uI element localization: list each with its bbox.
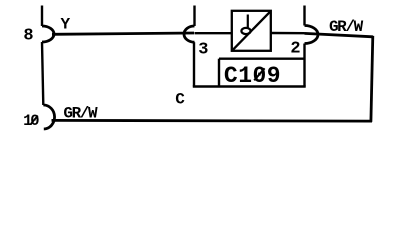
svg-text:C109: C109 [224,63,281,89]
C109 box top edge left segment [195,32,233,34]
C109 box top edge right segment [271,32,305,35]
C109 pin 2 arc [305,26,319,44]
symbol stem [247,15,249,29]
svg-text:10: 10 [23,112,39,130]
svg-text:GR/W: GR/W [63,105,98,123]
slash of zero in C109 [254,68,264,80]
connector pin 8 arc [42,26,54,42]
C109 inner symbol square [232,11,271,51]
C109 pin 3 lead from top [193,6,195,27]
pin 10 label [23,112,39,130]
C109 outer box bottom edge [193,85,306,87]
C109 outer box right edge [303,44,305,87]
wire right vertical segment [371,36,373,122]
symbol diagonal [233,12,270,50]
wire bottom horizontal segment [52,119,373,122]
C109 label box top edge [219,58,305,60]
svg-text:Y: Y [60,16,70,34]
wire GR/W upper label [329,18,364,36]
connector pin 10 arc [43,105,54,129]
wire Y (pin 8 to C109 pin 3) [52,33,194,34]
C109 pin 3 arc [184,26,195,42]
svg-text:2: 2 [290,40,300,59]
C109 outer box left edge [193,42,195,86]
svg-text:3: 3 [198,41,208,60]
symbol ellipse [241,28,250,34]
svg-text:C: C [175,91,185,109]
C109 pin 2 lead to top [303,6,305,26]
wire from C109 pin 2 to right corner [305,33,373,36]
slash of zero in 10 [31,116,38,124]
C109 label box left edge [218,59,220,87]
connector body line (left, upper segment) [41,6,43,27]
wire GR/W lower label [63,105,98,123]
svg-text:8: 8 [23,27,33,46]
connector body line (left, middle segment) [42,42,43,105]
